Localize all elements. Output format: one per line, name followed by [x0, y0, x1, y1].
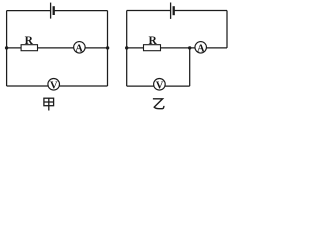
svg-text:A: A	[197, 43, 205, 54]
label 乙 (right circuit caption)	[153, 99, 164, 109]
wire: right circuit bottom side	[127, 85, 190, 87]
wire: left circuit right vertical side	[107, 11, 109, 86]
svg-text:R: R	[25, 35, 34, 47]
battery B2 long thin plate	[170, 3, 172, 19]
svg-text:V: V	[50, 81, 58, 92]
voltmeter V (left circuit)	[48, 79, 60, 91]
wire: right circuit middle branch (left wire to right vertical)	[127, 47, 227, 49]
svg-text:R: R	[148, 35, 157, 47]
wire: left circuit left vertical side	[6, 11, 8, 86]
node: junction dot between resistor and ammeter	[188, 46, 191, 49]
wire: drop from junction between R and ammeter down to bottom	[189, 48, 191, 86]
node: junction dot, middle branch to right wire	[106, 46, 109, 49]
wire: left circuit middle branch	[7, 47, 108, 49]
wire: right circuit top side (right of battery)	[174, 10, 227, 12]
svg-text:V: V	[156, 81, 164, 92]
ammeter A (left circuit)	[74, 42, 86, 54]
node: junction dot on right circuit left wire	[125, 46, 128, 49]
resistor R (right circuit)	[144, 45, 161, 51]
node: junction dot, middle branch to left wire	[5, 46, 8, 49]
ammeter A (right circuit)	[195, 42, 207, 54]
wire: right circuit top side (left of battery)	[127, 10, 170, 12]
battery B1 short thick plate	[53, 6, 55, 15]
resistor R (left circuit)	[21, 45, 37, 51]
battery B2 short thick plate	[173, 6, 175, 15]
battery B1 long thin plate	[50, 3, 52, 19]
wire: left circuit bottom side	[7, 85, 108, 87]
voltmeter V (right circuit)	[154, 79, 166, 91]
svg-text:A: A	[75, 43, 83, 54]
label 甲 (left circuit caption)	[44, 98, 54, 110]
wire: left circuit top side (right of battery)	[54, 10, 107, 12]
wire: right circuit right vertical side (top down to ammeter branch)	[226, 11, 228, 48]
wire: left circuit top side (left of battery)	[7, 10, 51, 12]
wire: right circuit left vertical side	[126, 11, 128, 87]
